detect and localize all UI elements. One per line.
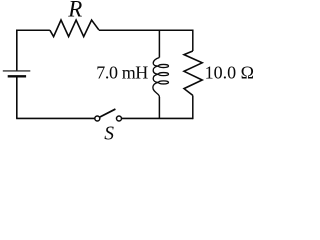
wire left vertical lower (battery bottom lead)	[16, 77, 18, 118]
resistor 10ohm (vertical zigzag)	[184, 51, 202, 95]
svg-text:10.0 Ω: 10.0 Ω	[205, 63, 254, 83]
wire bottom-left horizontal	[16, 117, 95, 119]
switch S: right contact	[117, 116, 122, 121]
resistor 10ohm top lead	[192, 30, 194, 52]
resistor 10ohm bottom lead	[192, 95, 194, 119]
battery top plate (long thin)	[3, 70, 31, 72]
inductor L coil hook 2	[153, 66, 158, 74]
inductor L coil loop 1	[159, 64, 169, 67]
switch S: left contact	[95, 116, 100, 121]
resistor R (zigzag)	[50, 20, 99, 37]
inductor L bottom lead	[158, 97, 160, 118]
wire left vertical (battery top lead)	[16, 30, 18, 71]
svg-text:R: R	[67, 0, 82, 22]
inductor L coil tail	[153, 82, 160, 97]
inductor L coil hook 3	[153, 74, 158, 82]
inductor L top lead	[158, 30, 160, 57]
battery bottom plate (short thick)	[8, 75, 26, 77]
svg-text:7.0 mH: 7.0 mH	[96, 63, 148, 83]
inductor L coil hook 1	[153, 58, 159, 67]
wire top-right horizontal	[99, 29, 193, 31]
inductor L coil loop 2	[159, 73, 169, 76]
svg-text:S: S	[104, 123, 114, 142]
wire bottom-right horizontal	[122, 117, 193, 119]
inductor L coil loop 3	[159, 81, 169, 84]
wire top-left horizontal	[17, 29, 50, 31]
switch S: blade	[100, 109, 116, 117]
